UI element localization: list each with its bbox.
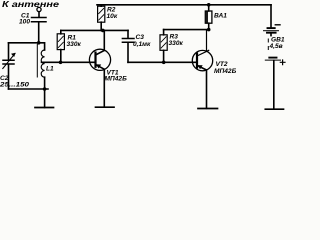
svg-text:4,5в: 4,5в [269, 43, 283, 50]
junction VT2 collector node [207, 28, 211, 32]
svg-text:L1: L1 [46, 66, 54, 73]
svg-text:МП42Б: МП42Б [105, 76, 128, 83]
svg-text:С3: С3 [136, 34, 145, 41]
inductor L1 core line [36, 45, 38, 78]
wire base VT2 [128, 61, 196, 63]
transistor VT2 [192, 50, 212, 70]
headphone BA1 [207, 3, 211, 7]
wire R3 top to VT2 collector node [164, 29, 209, 31]
ground (VT1 emitter) [96, 106, 115, 108]
svg-text:10к: 10к [107, 13, 118, 20]
wire base VT1 (coil tap to base) [42, 61, 96, 63]
junction R1/base [59, 61, 63, 65]
svg-text:ВА1: ВА1 [214, 13, 227, 20]
junction tank/ground [43, 87, 47, 91]
wire C2 top lead [8, 43, 10, 60]
transistor VT1 [89, 49, 110, 70]
junction R3/base [162, 61, 166, 65]
resistor R3 [160, 35, 167, 51]
wire R1 top to collector node [61, 29, 128, 31]
antenna terminal [37, 7, 41, 11]
inductor L1 [39, 43, 45, 50]
svg-text:МП42Б: МП42Б [214, 68, 237, 75]
svg-text:100: 100 [19, 19, 30, 26]
battery bottom lead [273, 61, 275, 109]
svg-text:25...150: 25...150 [0, 82, 30, 89]
minus mark [275, 24, 280, 26]
svg-text:330к: 330к [67, 41, 82, 48]
wire tank bottom [9, 88, 49, 90]
wire C1 to node A [38, 22, 40, 43]
battery dashed middle [267, 39, 269, 50]
wire node A to C2 top [9, 42, 39, 44]
node A [37, 41, 41, 45]
plus mark [280, 60, 285, 65]
wire rail to battery [270, 5, 272, 28]
svg-text:К антенне: К антенне [2, 0, 60, 9]
svg-text:0,1мк: 0,1мк [133, 41, 151, 48]
ground (battery) [265, 108, 283, 110]
ground (tank) [44, 89, 46, 108]
resistor R2 [98, 6, 105, 22]
top rail [97, 4, 271, 6]
svg-text:330к: 330к [169, 40, 184, 47]
ground (VT2 emitter) [198, 108, 218, 110]
wire antenna to C1 [38, 12, 40, 17]
junction collector node [101, 29, 105, 33]
battery GB1 top cells [268, 27, 275, 29]
variable capacitor C2 [3, 60, 14, 64]
wire C2 bottom lead [8, 64, 10, 89]
capacitor C3 [127, 30, 129, 38]
resistor R1 [57, 34, 64, 50]
battery GB1 bottom cell [269, 57, 276, 59]
capacitor C1 [32, 18, 47, 22]
